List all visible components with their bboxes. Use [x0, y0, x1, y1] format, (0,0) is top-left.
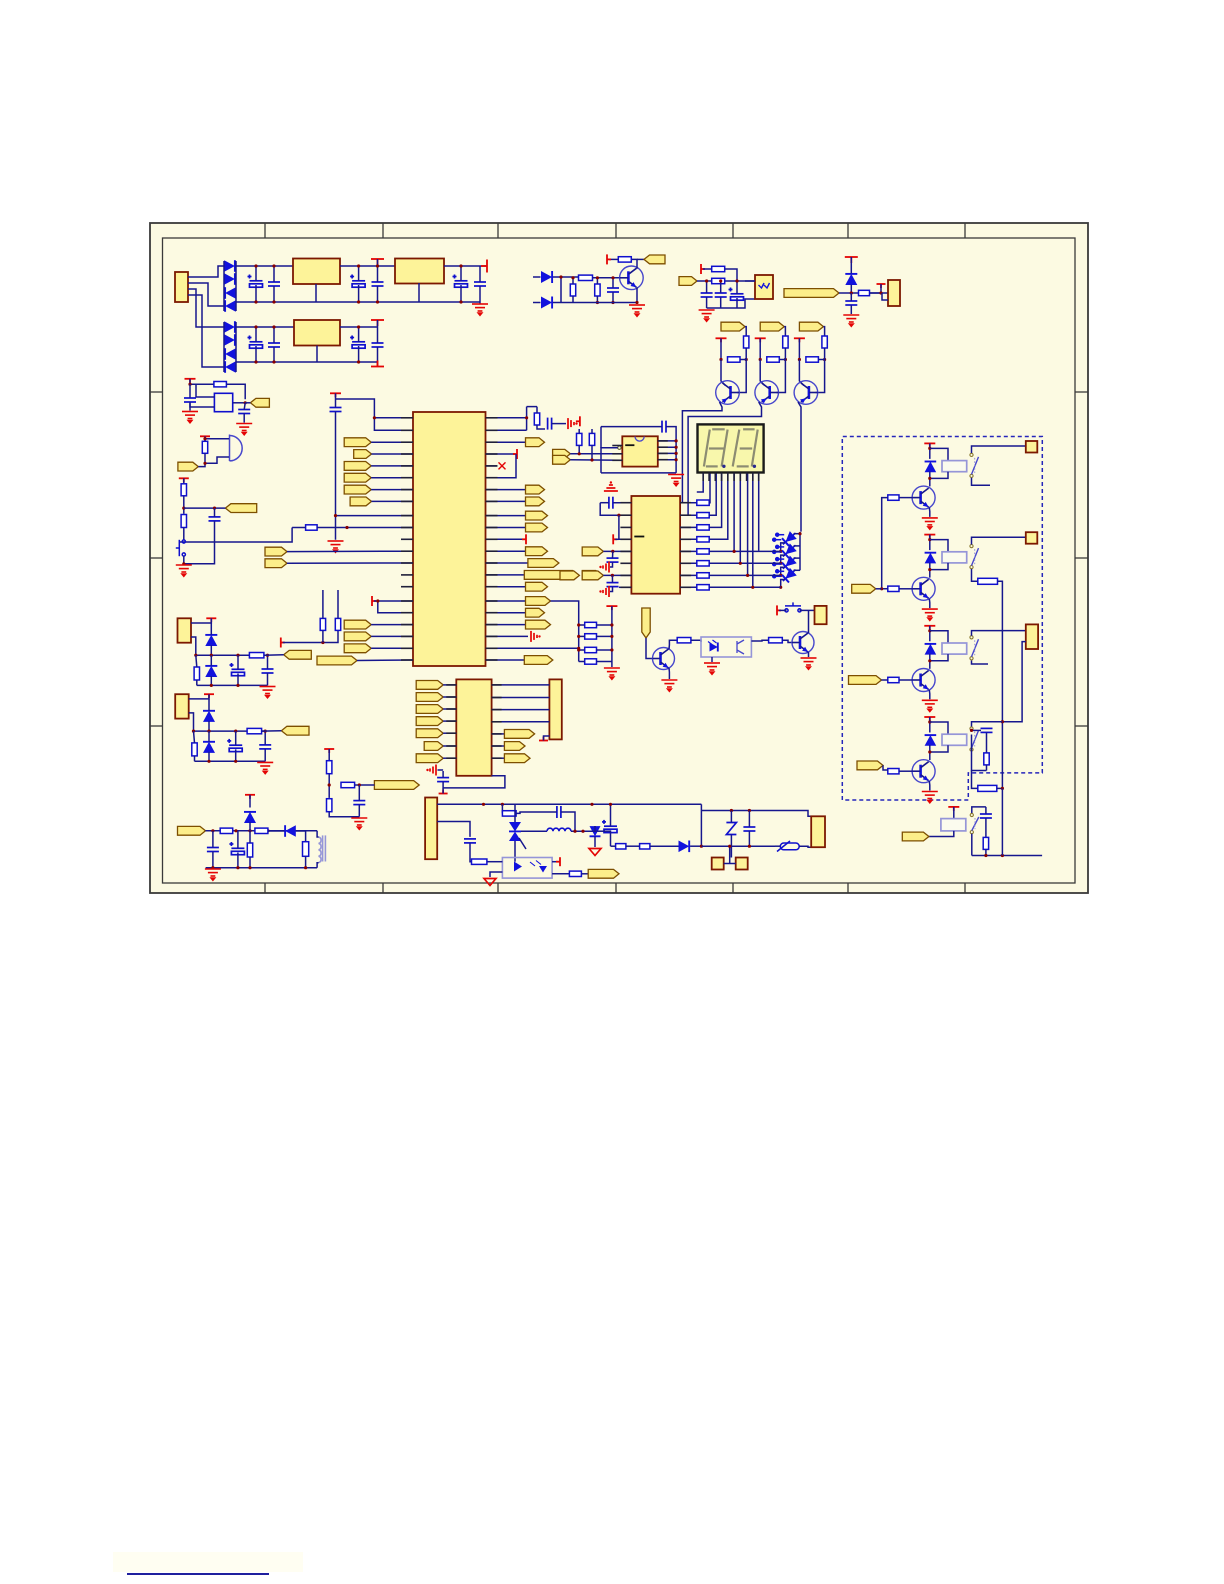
net flag U4C	[582, 571, 603, 580]
ground Q5	[661, 680, 677, 691]
net flag U7R1	[492, 733, 505, 735]
wire J1 to bridge B2 low	[188, 295, 224, 367]
wire E2 to U3	[570, 459, 622, 462]
wire r11 power stub	[486, 538, 525, 540]
wire Q1 collector	[631, 259, 637, 268]
wire C4 leads	[377, 266, 379, 282]
wire row16	[374, 600, 413, 602]
wire triac top	[514, 804, 516, 822]
wire RLY2	[876, 588, 882, 590]
resistor R35 base	[888, 495, 899, 500]
ground PSU	[479, 302, 481, 304]
power bar relay K1	[924, 443, 935, 447]
net flag U7-2	[416, 693, 443, 702]
wire K2 contact NC to R39	[972, 569, 978, 581]
wire fuse leads	[775, 845, 780, 847]
ground Q6	[801, 658, 817, 669]
wire coil K4 top	[930, 722, 948, 734]
net flag KEY	[225, 504, 256, 513]
ground Q1	[629, 305, 645, 316]
wire Q1 emitter rail	[561, 302, 637, 304]
relay contact K5	[970, 813, 979, 833]
net flag P5 row7	[344, 485, 371, 494]
7-segment display DS1	[698, 424, 764, 472]
wire I3 bottom	[329, 812, 359, 817]
relay coil K3	[942, 643, 967, 654]
wire crystal node to MCU pin1	[336, 399, 414, 418]
wire U2 out	[444, 265, 487, 267]
wire coil K1 bottom	[930, 472, 948, 479]
power bar K1 circuit	[185, 379, 196, 383]
net flag RLY2	[852, 584, 876, 593]
wire U9 out	[552, 873, 569, 875]
wire C24 to R40	[986, 732, 988, 753]
wire relay K1 feed	[929, 443, 931, 459]
bridge B1 diode D3	[225, 287, 236, 299]
wire L1 right	[571, 830, 588, 832]
net flag RLY3	[849, 676, 882, 685]
red bars U4 top	[604, 485, 618, 491]
wire reset vertical	[526, 407, 528, 431]
wire bottom rail left	[595, 830, 611, 832]
wire J8 bottom rail	[197, 684, 268, 686]
wire LED D14 cathode step	[781, 567, 785, 575]
wire relay K4 feed	[929, 717, 931, 733]
bridge B2 diode D5	[224, 321, 235, 333]
capacitor C10	[372, 343, 384, 347]
wire U4A	[603, 550, 631, 552]
net flag U7-7	[416, 754, 443, 763]
net flag RLY4	[857, 761, 883, 770]
wire R16-R17 tops to MCU rows	[322, 590, 324, 600]
wire U1 out	[340, 265, 395, 267]
wire Q6 emitter	[808, 652, 810, 657]
wire R41 to bus	[997, 787, 1003, 789]
wire coil K1 top	[930, 448, 948, 460]
connector J3	[815, 606, 827, 624]
net flag DIG3	[799, 322, 823, 331]
relay contact K3	[970, 636, 979, 660]
wire R43 right	[227, 384, 246, 399]
bridge B1 left rail wire	[223, 261, 225, 311]
7seg digit1 segments	[704, 429, 728, 466]
resistor J9r1	[192, 743, 197, 756]
power bar relay K3	[924, 626, 935, 630]
wire Q10 emitter	[928, 781, 931, 791]
net flag long AC	[784, 289, 839, 298]
wire KEY to node	[184, 507, 226, 509]
wire K1 contact NC	[972, 478, 991, 486]
wire emitter pullup Q4	[798, 338, 800, 359]
regulator U2	[395, 259, 444, 284]
wire row16 to resistor ladder	[551, 601, 579, 662]
interface IC U7	[456, 679, 491, 775]
net flag U4A	[582, 547, 603, 556]
resistor R4	[618, 257, 631, 262]
wire right section top	[701, 811, 811, 817]
wire U5 in	[745, 280, 755, 282]
wire C1 leads	[255, 266, 257, 281]
power +V bar	[371, 259, 384, 265]
wire C6 leads	[479, 266, 481, 282]
wire ladder bus	[611, 606, 613, 667]
wire Q7 base net	[882, 498, 888, 589]
wire U3 bottom loop	[601, 472, 676, 474]
resistor R5	[712, 266, 725, 271]
wire U3 left loop	[601, 448, 618, 473]
wire E1 to U3	[570, 453, 622, 455]
net flag U7R3	[492, 757, 505, 759]
transistor Q6	[792, 632, 814, 654]
capacitor C31	[229, 842, 244, 855]
bridge B1 right rail wire	[235, 261, 237, 311]
junction C4	[376, 264, 379, 267]
wire U8 out	[233, 402, 246, 404]
wire emitter Q4	[799, 360, 804, 386]
ground C26	[189, 402, 191, 411]
LED D15	[779, 566, 799, 585]
connector J10	[425, 798, 437, 860]
power bar relay K5	[948, 807, 959, 811]
wire pads join	[724, 863, 736, 865]
wire coil K3 bottom	[930, 654, 948, 661]
ground Q10	[922, 792, 938, 803]
net flag ACDET	[581, 873, 588, 875]
wire C25 to R42	[985, 818, 987, 837]
capacitor C12	[701, 293, 713, 297]
wire VF1 to Q5 base	[646, 638, 652, 659]
transistor Q3 (PNP)	[755, 381, 779, 405]
relay coil K2	[942, 552, 967, 563]
relay coil K5	[941, 819, 966, 831]
relay contact K2	[970, 545, 979, 569]
inductor L1	[521, 830, 547, 832]
wire 7seg pin1 stub	[697, 473, 703, 493]
wire MCU row9 to left bus	[336, 515, 414, 517]
wire U7 bottom loop	[443, 776, 505, 788]
wire LED row extensions	[734, 550, 781, 552]
wire flag to diode node	[839, 292, 881, 294]
diode D11	[845, 274, 857, 285]
regulator U1	[293, 259, 340, 285]
wire pullup join	[740, 359, 746, 361]
wire Q5 emitter	[668, 668, 670, 679]
wire R17 up	[337, 601, 339, 618]
diode D18 flyback	[925, 644, 937, 655]
capacitor J9c2	[259, 745, 271, 749]
wire R23 down	[578, 445, 580, 453]
resistor R9	[783, 336, 788, 348]
wire buzzer pins	[204, 453, 206, 463]
wire R34 to Q6	[782, 640, 792, 642]
capacitor C13	[715, 293, 727, 297]
power bar reset	[576, 416, 580, 426]
LED D14	[779, 554, 799, 573]
resistor R48	[341, 782, 355, 787]
wire J1 to bridge B2	[188, 289, 224, 327]
net flag R4 row9	[486, 515, 526, 517]
ground rail C-section	[707, 299, 755, 308]
wire segment net 1	[708, 473, 711, 503]
net flag P12 long row21	[317, 656, 357, 665]
resistor R3	[595, 284, 600, 296]
diode J9a	[203, 711, 215, 722]
wire base R36	[899, 588, 912, 590]
wire D21 to transformer	[296, 831, 306, 842]
net flag R12 row17	[486, 612, 526, 614]
pushbutton S2 vertical	[176, 540, 186, 556]
transistor Q4 (PNP)	[794, 381, 818, 405]
power bar J4	[539, 737, 548, 741]
wire J2 pin2	[882, 293, 888, 300]
net flag P2 row4	[354, 450, 372, 459]
red bars reset	[568, 418, 574, 429]
wire LED right bus	[799, 534, 801, 571]
net flag R10 row15	[486, 586, 526, 588]
wire coil K3 top	[930, 631, 948, 643]
capacitor C30	[207, 848, 219, 852]
resistor R41	[978, 785, 997, 791]
ground I3	[351, 818, 367, 829]
resistor J8r1	[194, 667, 199, 680]
wire relay K1 to Q7	[929, 471, 931, 486]
earth triangle U9	[490, 872, 502, 877]
resistor R46	[181, 515, 186, 528]
wire segment net 6	[709, 473, 740, 564]
wire LED D12 cathode step	[781, 543, 785, 552]
power bar relay K2	[924, 535, 935, 539]
resistor R2	[570, 284, 575, 296]
wire LED D12 anode step	[794, 533, 801, 535]
capacitor C11	[607, 288, 619, 292]
buzzer LS1	[230, 435, 243, 462]
capacitor C26	[184, 398, 196, 402]
capacitor C16 crystal	[330, 408, 342, 412]
capacitor C21	[607, 558, 619, 562]
diode J8a	[205, 635, 217, 646]
wire base Q4	[816, 348, 825, 393]
footer link line	[113, 1552, 303, 1572]
capacitor C23 U7	[437, 778, 449, 782]
pushbutton S1	[785, 602, 801, 612]
power bar relay K4	[924, 717, 935, 721]
driver IC U4	[631, 496, 680, 594]
wire RV1 leads	[730, 811, 732, 823]
wire RLY3	[882, 679, 888, 681]
wire Q4 collector to LED chain	[798, 402, 801, 532]
connector J9	[175, 694, 189, 718]
wire K3 contact NC	[972, 661, 989, 665]
capacitor C27	[238, 410, 250, 414]
capacitor C25	[980, 814, 992, 818]
ground Q8	[922, 609, 938, 620]
wire LED D13 cathode step	[781, 555, 785, 563]
resistor R23 pullup	[577, 433, 582, 445]
net flag R3 row8	[486, 500, 526, 502]
capacitor C35	[743, 827, 755, 831]
wire to watchdog resistor	[972, 771, 978, 789]
power bar U7 bottom	[439, 790, 448, 794]
wire T1 winding	[317, 831, 319, 837]
power bar I3	[324, 749, 334, 753]
red bars U7 cap	[430, 765, 436, 776]
wire base R35	[899, 497, 912, 499]
resistor R8	[744, 336, 749, 348]
capacitor C32	[464, 839, 476, 843]
wire bus drop	[619, 515, 632, 539]
resistor R33	[677, 638, 691, 643]
wire C20 right to U4	[613, 502, 632, 504]
wire +rail top	[236, 265, 293, 267]
net flag VOUT1	[637, 258, 644, 260]
wire MCU r1 reset	[486, 417, 527, 419]
opto U6 LED	[710, 643, 718, 652]
wire K2 contact to J6	[972, 537, 1026, 544]
bridge B2 right rail wire	[235, 322, 237, 372]
earth triangle D22	[589, 849, 601, 856]
wire flag to R10	[823, 327, 824, 336]
wire U2 ground pin	[418, 283, 420, 302]
wire R40 bottom	[986, 765, 988, 771]
wire B2 bottom rail	[236, 361, 378, 363]
wire row10 segments	[292, 527, 305, 529]
wire C8 leads	[273, 327, 275, 343]
diode D20	[244, 812, 256, 823]
wire flag to R8	[745, 327, 746, 336]
wire K4 contact NC drop	[972, 735, 987, 771]
wire base Q2	[737, 348, 746, 393]
resistor R10	[822, 336, 827, 348]
wire emitter pullup Q3	[759, 338, 761, 359]
resistor R13	[806, 357, 819, 362]
capacitor C33 snubber	[557, 806, 561, 818]
transistor Q8	[912, 577, 935, 600]
wire C32 down	[470, 843, 472, 862]
wire K1 contact to J5	[972, 446, 1026, 453]
ground J9	[257, 762, 273, 773]
wire U1 ground pin	[315, 284, 317, 302]
ground J8	[260, 687, 276, 698]
relay coil K1	[942, 461, 967, 472]
wire R5 to device	[725, 269, 737, 281]
wire 7seg pin10 stub	[758, 473, 760, 551]
connector J6	[1026, 532, 1038, 544]
resistor R39	[978, 578, 998, 584]
wire J8 conn to diode	[191, 618, 211, 623]
resistor R17 vert	[335, 618, 340, 630]
ground ladder	[604, 668, 620, 679]
resistor R40	[984, 753, 989, 765]
diode D22	[590, 826, 601, 836]
wire U7 pin4	[443, 720, 456, 722]
power bar C-section	[701, 264, 705, 274]
net flag DIG2	[760, 322, 784, 331]
wire U7 to J4 pin4	[492, 721, 550, 723]
resistor R14 row10	[306, 525, 318, 530]
resistor R30 segment	[680, 562, 697, 564]
ground I4	[205, 869, 221, 880]
wire emitter Q2	[721, 360, 726, 386]
resistor R49	[327, 799, 332, 812]
wire right section bottom	[701, 845, 775, 847]
resistor R55	[640, 844, 650, 849]
power bar buzzer	[200, 436, 210, 440]
resistor ladder R19	[585, 622, 597, 627]
diode D21	[285, 825, 296, 837]
resistor R31 segment	[680, 574, 697, 576]
ground C27	[243, 414, 245, 423]
power bar J8	[206, 618, 216, 622]
bridge B2 diode D7	[225, 348, 236, 360]
net flag J9out	[281, 726, 309, 735]
wire U7 to J4 pin1	[492, 684, 550, 686]
wire K5 coil bottom	[929, 831, 954, 837]
schematic sheet background	[150, 223, 1088, 893]
resistor R52	[255, 828, 268, 833]
capacitor J8c1	[230, 663, 245, 676]
wire LED D13 anode step	[794, 545, 801, 547]
net flag P3 row5	[344, 462, 371, 471]
wire base Q3	[776, 348, 785, 393]
wire U7 pin1	[443, 684, 456, 686]
bridge B1 diode D1	[224, 260, 235, 272]
7seg digit2 segments	[733, 429, 758, 466]
diode D17 flyback	[925, 553, 937, 564]
7seg digit2 dp	[753, 465, 756, 468]
transistor Q1	[620, 266, 644, 290]
wire emitter Q3	[760, 360, 765, 386]
wire U7 pin7	[443, 757, 456, 759]
wire U3 out	[340, 326, 378, 328]
wire U4 row8 stub	[619, 586, 632, 588]
resistor R28 segment	[680, 538, 697, 540]
wire r5 with no-connect X	[486, 465, 498, 467]
wire Q8 emitter	[928, 599, 931, 609]
wire LED D14 anode step	[794, 557, 801, 559]
wire U3 top loop	[601, 426, 662, 428]
wire R48 to flag	[355, 784, 375, 786]
wire U7 pin2	[443, 696, 456, 698]
power bar ladder	[606, 606, 617, 610]
connector J5	[1026, 441, 1038, 453]
wire K5 contact NC drop	[971, 834, 973, 856]
pin1 circle U3	[618, 446, 621, 449]
junction C1	[254, 264, 257, 267]
wire C7 leads	[255, 327, 257, 342]
resistor R57	[569, 871, 581, 876]
diode D9	[533, 276, 541, 278]
wire U4 left bus	[600, 503, 631, 516]
sheet inner border	[163, 238, 1076, 883]
net flag U4B	[560, 571, 579, 580]
net flag E1	[553, 449, 571, 458]
power bar Q2	[716, 338, 727, 342]
optocoupler U9	[502, 858, 552, 879]
wire row17 jog	[378, 601, 413, 613]
ground C15	[843, 315, 859, 326]
wire R39 to common bus	[998, 581, 1003, 788]
wire crystal cap to ground bus	[335, 412, 337, 540]
bridge B1 diode D4	[225, 300, 236, 312]
net flag P8 row13	[265, 559, 287, 568]
resistor R50	[220, 828, 233, 833]
wire J1 to bridge B1	[188, 266, 224, 277]
capacitor C18 reset	[548, 418, 552, 430]
resistor R47	[327, 761, 332, 774]
wire U7 to J4 pin3	[492, 709, 550, 711]
wire coil K4 bottom	[930, 745, 948, 752]
optocoupler U6	[701, 637, 751, 657]
